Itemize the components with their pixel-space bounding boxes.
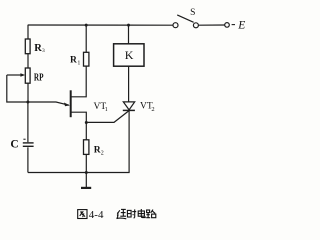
- potentiometer RP: [25, 68, 30, 83]
- wire wiper loop: [7, 75, 28, 102]
- wire switch to supply terminal: [198, 24, 224, 26]
- wire bottom rail: [28, 172, 130, 174]
- transistor VT1 base bar: [70, 90, 72, 117]
- junction node A (RP/C/emitter): [26, 101, 29, 104]
- dash before E: [232, 24, 235, 26]
- switch S terminal 1: [173, 23, 178, 28]
- capacitor C plates: [23, 142, 34, 143]
- switch S terminal 2: [193, 23, 198, 28]
- svg-text:2: 2: [101, 150, 104, 156]
- resistor R1: [84, 52, 89, 66]
- junction node B (B1/R2/gate): [85, 121, 88, 124]
- wire left branch upper: [27, 25, 29, 39]
- svg-text:1: 1: [77, 60, 80, 66]
- wire emitter of VT1: [28, 102, 69, 105]
- caption character yan (delay): [117, 209, 127, 218]
- capacitor polarity mark: [23, 139, 25, 140]
- wire B1 lead of VT1: [71, 112, 87, 122]
- junction node bottom rail / ground: [85, 171, 88, 174]
- junction node K-top: [127, 24, 130, 27]
- wire RP to node A: [27, 83, 29, 102]
- svg-text:2: 2: [151, 106, 154, 113]
- wire node A to capacitor: [27, 102, 29, 142]
- svg-text:C: C: [10, 139, 18, 151]
- resistor R2: [84, 140, 89, 155]
- svg-text:1: 1: [105, 107, 108, 113]
- supply terminal circle: [225, 23, 230, 28]
- wire R1 top lead: [85, 25, 87, 52]
- wire K to VT2 anode: [128, 66, 130, 102]
- wire node B to R2: [85, 123, 87, 140]
- svg-text:R: R: [70, 55, 77, 65]
- svg-text:S: S: [190, 8, 195, 18]
- thyristor VT2 cathode bar: [123, 109, 135, 111]
- wire K branch upper: [128, 25, 130, 44]
- VT1 emitter arrowhead: [64, 103, 70, 107]
- RP wiper arrowhead: [20, 73, 25, 77]
- svg-text:R: R: [94, 145, 101, 155]
- svg-text:4-4: 4-4: [89, 209, 104, 221]
- caption character dian (electric): [138, 209, 145, 218]
- thyristor VT2 triangle: [123, 102, 134, 110]
- wire VT2 cathode to bottom rail: [128, 110, 130, 172]
- svg-text:3: 3: [42, 48, 45, 54]
- wire R3 to RP: [27, 54, 29, 68]
- svg-text:RP: RP: [34, 72, 44, 83]
- switch S blade: [177, 15, 193, 22]
- caption character lu (road): [146, 210, 156, 218]
- caption character tu (figure): [78, 210, 87, 219]
- svg-text:K: K: [125, 48, 134, 62]
- junction node R1-top: [85, 24, 88, 27]
- wire RP wiper: [7, 74, 22, 76]
- wire B2 lead of VT1: [71, 66, 87, 97]
- relay K box: [114, 44, 144, 66]
- wire R2 to bottom rail: [85, 154, 87, 172]
- ground: [85, 173, 87, 188]
- wire capacitor to bottom rail: [27, 147, 29, 172]
- resistor R3: [25, 39, 30, 54]
- wire top rail: [28, 24, 173, 26]
- caption character shi (time): [127, 209, 136, 218]
- svg-text:E: E: [237, 20, 245, 32]
- wire gate of VT2: [86, 111, 129, 123]
